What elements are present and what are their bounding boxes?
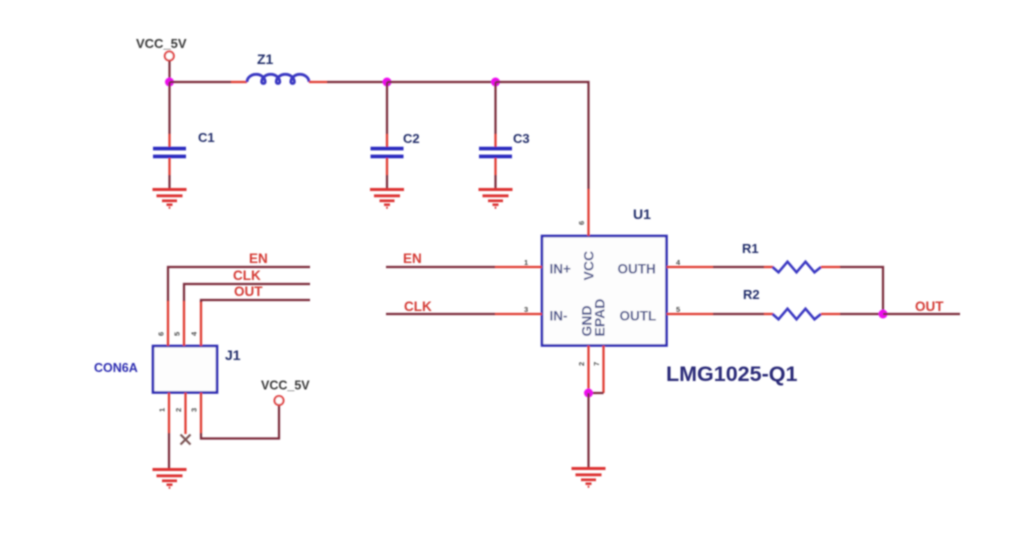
wire: rail to U1 VCC (corner at x=588.5) (496, 82, 589, 189)
junction: OUT node (879, 310, 888, 319)
svg-text:1: 1 (524, 258, 528, 267)
svg-text:OUTL: OUTL (620, 309, 657, 324)
svg-text:EN: EN (249, 251, 268, 266)
wire: CLK net from J1 (184, 284, 310, 301)
capacitor C3 (479, 131, 530, 175)
svg-text:7: 7 (592, 362, 601, 366)
wire: EPAD to GND junction (589, 392, 604, 394)
resistor R2 (743, 287, 840, 319)
capacitor C2 (371, 131, 420, 175)
svg-text:5: 5 (173, 332, 182, 336)
wire: EN net from J1 (168, 267, 310, 301)
svg-text:J1: J1 (225, 347, 241, 363)
power symbol VCC_5V (near J1) (261, 379, 310, 406)
capacitor C1 (153, 130, 215, 175)
svg-text:6: 6 (157, 332, 166, 336)
inductor Z1 (231, 51, 327, 84)
wire: OUT net from J1 (201, 300, 310, 302)
ground below J1 (153, 470, 187, 488)
J1 pin 6 (top, EN) (157, 301, 169, 347)
svg-text:R1: R1 (742, 241, 759, 256)
svg-text:C2: C2 (403, 131, 420, 146)
svg-text:OUT: OUT (234, 284, 263, 299)
svg-text:2: 2 (174, 408, 183, 412)
power symbol VCC_5V (top left) (136, 36, 187, 61)
wire: C3 lower net segment (494, 175, 496, 189)
svg-text:CLK: CLK (233, 268, 261, 283)
svg-text:U1: U1 (633, 206, 651, 222)
wire: VCC_5V symbol to top rail (168, 61, 170, 82)
svg-text:EN: EN (403, 251, 422, 266)
U1 pin 4 (OUTH) (667, 258, 714, 267)
svg-text:VCC_5V: VCC_5V (136, 36, 187, 51)
svg-text:C1: C1 (198, 130, 215, 145)
J1 pin 1 (bottom, to ground) (158, 393, 170, 434)
ground below C2 (370, 190, 404, 208)
wire: J1 pin 3 to VCC_5V symbol (201, 406, 279, 439)
J1 pin 4 (top, OUT) (190, 301, 202, 346)
svg-text:EPAD: EPAD (592, 299, 608, 337)
J1 pin 5 (top, CLK) (173, 301, 185, 347)
ground below C3 (479, 190, 513, 208)
wire: EN net into U1 pin 1 (386, 266, 495, 268)
wire: Z1 right lead to C2 junction (327, 81, 387, 83)
resistor R1 (742, 241, 840, 272)
svg-text:3: 3 (190, 408, 199, 412)
svg-text:CLK: CLK (404, 299, 432, 314)
U1 pin 6 (VCC) (577, 189, 589, 236)
svg-text:LMG1025-Q1: LMG1025-Q1 (666, 362, 797, 386)
wire: R1 to OUT junction (corner) (840, 267, 883, 314)
no-connect X on J1 pin 2 (181, 435, 191, 445)
junction: rail / C3 (491, 78, 500, 87)
svg-text:CON6A: CON6A (94, 361, 138, 375)
wire: CLK net into U1 pin 3 (386, 313, 495, 315)
wire: C3 upper net segment (494, 82, 496, 134)
svg-text:VCC: VCC (581, 251, 597, 281)
U1 pin 5 (OUTL) (667, 305, 714, 314)
svg-text:VCC_5V: VCC_5V (261, 379, 310, 393)
svg-text:4: 4 (190, 331, 199, 336)
svg-text:IN+: IN+ (550, 262, 572, 277)
wire: C1 upper net segment (168, 82, 170, 134)
wire: C2 lower net segment (386, 175, 388, 189)
wire: rail junction to Z1 left lead (170, 81, 232, 83)
wire: U1 pin 4 to R1 (713, 266, 764, 268)
wire: U1 GND down to ground symbol (587, 393, 589, 467)
svg-text:6: 6 (577, 221, 586, 225)
IC U1 body (542, 236, 667, 346)
svg-text:4: 4 (676, 258, 681, 267)
wire: U1 pin 5 to R2 (713, 313, 764, 315)
J1 pin 2 (bottom, no connect) (174, 393, 186, 435)
svg-text:2: 2 (577, 362, 586, 366)
junction: rail / C2 (383, 78, 392, 87)
connector J1 body (153, 346, 217, 393)
J1 pin 3 (bottom, to VCC_5V) (190, 393, 202, 434)
wire: J1 pin 1 to ground (168, 433, 170, 468)
svg-text:1: 1 (158, 408, 167, 412)
svg-text:OUT: OUT (915, 299, 944, 314)
wire: C1 lower net segment (168, 175, 170, 189)
junction: rail / C1 (165, 78, 174, 87)
svg-text:C3: C3 (513, 131, 530, 146)
svg-text:3: 3 (524, 305, 528, 314)
U1 pin 7 (EPAD) (592, 346, 604, 394)
junction: GND / EPAD (584, 389, 593, 398)
U1 pin 2 (GND) (577, 346, 589, 394)
wire: R2 to OUT junction (840, 313, 883, 315)
ground below U1 (572, 469, 606, 487)
svg-text:OUTH: OUTH (618, 262, 656, 277)
wire: C2 junction to C3 junction (387, 81, 496, 83)
wire: C2 upper net segment (386, 82, 388, 134)
wire: OUT net (883, 313, 960, 315)
svg-text:Z1: Z1 (257, 51, 274, 67)
svg-text:R2: R2 (743, 287, 760, 302)
U1 pin 1 (IN+) (495, 258, 542, 267)
svg-text:IN-: IN- (550, 309, 568, 324)
svg-text:5: 5 (676, 305, 680, 314)
ground below C1 (153, 190, 187, 208)
U1 pin 3 (IN-) (495, 305, 542, 314)
